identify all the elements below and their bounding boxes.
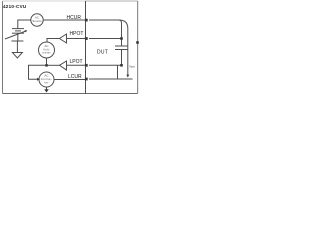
variable arrow on V1 <box>5 31 26 39</box>
node A junction dot <box>45 64 48 67</box>
wire HCUR terminal to DUT top (inner corner) <box>89 20 122 39</box>
arrowhead into AC ammeter <box>37 78 40 81</box>
terminal HPOT <box>85 37 88 40</box>
terminal HCUR <box>85 19 88 22</box>
wire LPOT buffer output to node A <box>47 64 60 66</box>
svg-text:cm: cm <box>131 65 136 69</box>
ground arrow under AC ammeter <box>44 89 49 92</box>
svg-text:HPOT: HPOT <box>70 31 84 37</box>
wire HPOT terminal to node B <box>89 38 122 40</box>
wire node A to AC ammeter input <box>29 65 47 79</box>
wire AC voltmeter to node A <box>46 58 48 65</box>
arrowhead variable arrow V1 <box>24 30 27 32</box>
AC voltmeter M1 <box>39 42 55 58</box>
DC bias source V1 (battery) <box>12 28 24 30</box>
AC ammeter M2 <box>39 72 54 87</box>
svg-text:ter: ter <box>44 80 48 84</box>
ground (chassis, under DC source) <box>11 40 23 42</box>
wire LCUR riser to LPOT line <box>117 65 119 79</box>
wire LPOT terminal to node C <box>89 64 122 66</box>
svg-text:Source: Source <box>32 19 42 23</box>
wire HPOT buffer to HPOT terminal <box>67 38 86 40</box>
wire HCUR outer arc down right side <box>119 20 128 75</box>
node B junction dot <box>120 37 123 40</box>
node D junction dot (on right border) <box>136 41 139 44</box>
terminal LCUR <box>85 78 88 81</box>
wire LCUR terminal to right side <box>89 78 133 80</box>
wire V1 to ground <box>17 33 19 41</box>
svg-text:LPOT: LPOT <box>70 59 83 65</box>
wire LPOT buffer to LPOT terminal <box>67 64 86 66</box>
wire AC ammeter to ground <box>46 87 48 90</box>
svg-text:4210-CVU: 4210-CVU <box>3 4 27 9</box>
svg-text:DUT: DUT <box>97 50 108 56</box>
op-amp HPOT buffer A1 <box>60 34 67 43</box>
wire HPOT buffer output to AC voltmeter <box>47 39 60 43</box>
node C junction dot <box>120 64 123 67</box>
AC source U1 <box>31 14 43 26</box>
wire AC source to HCUR terminal <box>43 19 86 21</box>
svg-text:HCUR: HCUR <box>67 15 82 21</box>
capacitor DUT <box>121 39 123 47</box>
instrument box 4210-CVU <box>2 1 4 94</box>
terminal LPOT <box>85 64 88 67</box>
op-amp LPOT buffer A2 <box>60 61 67 70</box>
wire AC source left to DC source <box>18 20 31 29</box>
arrowhead current direction lower <box>126 75 129 78</box>
svg-text:LCUR: LCUR <box>68 74 82 80</box>
svg-text:meter: meter <box>42 51 51 55</box>
wire AC ammeter to LCUR terminal <box>54 79 86 81</box>
panel divider (terminal wall) <box>85 1 87 94</box>
